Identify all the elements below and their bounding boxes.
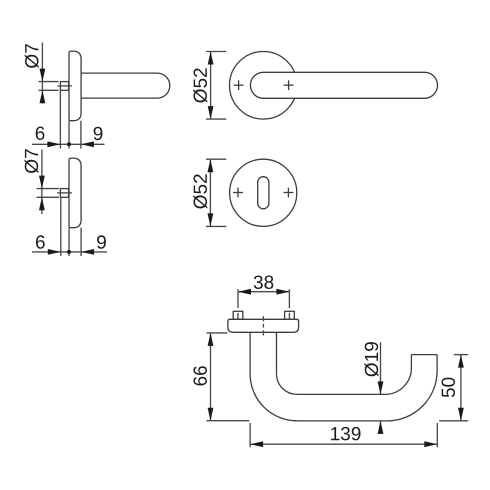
dim 50 arrows — [458, 355, 464, 368]
grip bottom line — [297, 420, 387, 422]
dim 50 label — [442, 378, 456, 398]
lever bend inner arc — [277, 374, 298, 395]
spindle center line F2 — [57, 192, 72, 194]
screw left F5 — [233, 311, 243, 319]
lever bend outer arc — [250, 374, 297, 421]
dim Ø19 arrow lower — [378, 421, 384, 434]
dim 6/9 F2 arrows and node dot — [48, 249, 61, 255]
dim Ø19 arrow upper — [378, 381, 384, 394]
lever grip front view — [250, 72, 437, 98]
dim 66 arrows — [208, 333, 214, 346]
grip return outer arc — [387, 355, 437, 421]
dim Ø7 F2 dimension line — [41, 150, 43, 215]
lever neck inner line — [276, 332, 278, 374]
dim Ø7 F1 label — [25, 44, 39, 68]
spindle square F1 — [60, 82, 68, 91]
dim 66 label — [193, 366, 207, 385]
dim Ø19 label — [364, 342, 378, 376]
dim Ø19 leader line upper — [380, 342, 382, 394]
dim 6 F1 label — [36, 127, 45, 141]
dim 50 dimension line — [460, 355, 462, 421]
dim 66 dimension line — [210, 333, 212, 421]
lever neck F1 — [81, 73, 170, 98]
rose R2 side profile — [69, 158, 81, 228]
rose R1 side profile — [69, 51, 81, 121]
grip return inner arc — [385, 355, 411, 395]
lever neck outer line — [249, 332, 251, 374]
spindle square F2 — [60, 189, 68, 198]
dim 139 label — [331, 427, 360, 441]
dim Ø7 F2 label — [24, 149, 38, 173]
dim Ø7 F1 dimension line — [41, 43, 43, 104]
dim 6/9 F1 dimension line — [32, 143, 105, 145]
rose R4 circle — [230, 159, 297, 226]
keyhole — [258, 177, 269, 209]
dim Ø52 F4 arrows — [208, 159, 214, 172]
dim Ø52 F4 label — [193, 174, 207, 208]
dim 50 end ticks — [454, 354, 468, 356]
screw cross right F4 — [284, 188, 294, 198]
dim Ø52 F4 end ticks — [206, 158, 226, 160]
dim 139 extension lines — [249, 423, 251, 447]
dim Ø52 F3 label — [193, 68, 207, 102]
dim Ø52 F4 dimension line — [209, 159, 211, 226]
rose R3 circle — [229, 52, 297, 120]
dim 38 extension lines through screws — [237, 289, 239, 308]
grip top line — [297, 393, 385, 395]
dim 38 label — [254, 276, 274, 290]
screw cross left F4 — [233, 188, 243, 198]
dim 38 arrows — [238, 289, 251, 295]
dim 6/9 F2 dimension line — [32, 251, 107, 253]
dim 6/9 F2 extension lines — [60, 197, 62, 256]
plate center dash line — [262, 316, 264, 336]
grip end face — [411, 354, 437, 356]
dim Ø7 F1 extension lines — [39, 81, 59, 83]
dim Ø7 F1 arrows — [40, 69, 46, 82]
dim Ø7 F2 arrows — [39, 176, 45, 189]
screw cross left F3 — [234, 80, 244, 90]
dim 6/9 F1 arrows and node dot — [47, 141, 60, 147]
dim 66 end ticks — [207, 332, 228, 334]
dim 6/9 F1 extension lines — [59, 90, 61, 148]
dim Ø52 F3 end ticks — [206, 51, 226, 53]
dim 6 F2 label — [36, 235, 45, 249]
screw right F5 — [285, 311, 295, 319]
dim 139 arrows — [250, 441, 263, 447]
dim 38 dimension line — [238, 291, 289, 293]
screw cross right F3 — [284, 80, 294, 90]
rose plate top view — [228, 319, 299, 332]
dim 9 F1 label — [94, 127, 103, 141]
dim 139 dimension line — [250, 443, 437, 445]
dim Ø52 F3 dimension line — [210, 52, 212, 120]
dim Ø19 leader line lower — [380, 421, 382, 434]
dim Ø52 F3 arrows — [208, 52, 214, 65]
spindle center line F1 — [58, 85, 72, 87]
dim Ø7 F2 extension lines — [37, 188, 60, 190]
dim 9 F2 label — [97, 235, 106, 249]
